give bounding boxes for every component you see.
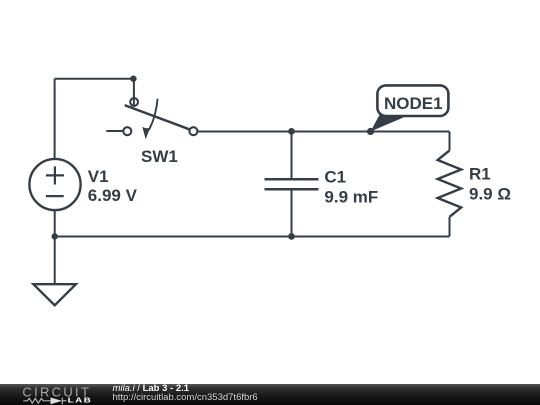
CircuitLab logo: resistor-diode glyph (23, 398, 66, 405)
wire: right vertical to resistor (449, 132, 451, 151)
svg-text:6.99 V: 6.99 V (88, 186, 138, 205)
CircuitLab logo: diode triangle (51, 398, 63, 405)
junction dot: capacitor top (288, 128, 295, 135)
svg-text:R1: R1 (469, 165, 491, 184)
wire: bottom horizontal return (55, 236, 450, 238)
wire: V1 top lead up left side (54, 79, 56, 160)
wire: resistor bottom lead (449, 217, 451, 237)
wire: switch output to right side (198, 131, 450, 133)
wire: drop to switch common terminal (133, 79, 135, 107)
svg-text:http://circuitlab.com/cn353d7t: http://circuitlab.com/cn353d7t6fbr6 (113, 392, 258, 403)
switch SW1 arrowhead (142, 127, 150, 140)
svg-text:LAB: LAB (68, 396, 93, 404)
svg-text:9.9 mF: 9.9 mF (324, 188, 378, 207)
wire: ground lead (54, 236, 56, 284)
node NODE1 callout (371, 85, 449, 131)
svg-text:C1: C1 (324, 168, 346, 187)
svg-text:V1: V1 (88, 167, 109, 186)
wire: top horizontal to switch (55, 78, 134, 80)
footer bar (0, 384, 540, 405)
junction dot: NODE1 anchor (367, 128, 374, 135)
resistor R1 (438, 151, 462, 217)
junction dot: capacitor bottom (288, 233, 295, 240)
svg-text:9.9 Ω: 9.9 Ω (469, 185, 511, 204)
junction dot: ground node (52, 233, 58, 239)
capacitor C1 (265, 179, 319, 189)
voltage source V1 (29, 159, 80, 210)
junction dot: top corner (130, 76, 136, 82)
svg-text:NODE1: NODE1 (384, 94, 443, 113)
wire: capacitor bottom lead (291, 189, 293, 236)
wire: capacitor top lead (291, 131, 293, 179)
switch SW1 (106, 98, 197, 135)
svg-text:SW1: SW1 (141, 147, 178, 166)
ground (33, 284, 76, 305)
wire: V1 bottom lead (54, 210, 56, 237)
